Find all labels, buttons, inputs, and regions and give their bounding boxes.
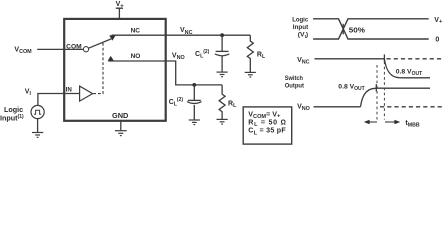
wire cap CL1 to ground [221,56,223,72]
NC pin label [131,27,141,34]
ground (CL2) [189,120,200,125]
svg-text:Input: Input [293,24,309,31]
Logic Input waveform labels [292,17,309,40]
driver buffer amp [80,86,93,101]
wire COM input [37,48,83,50]
V+ supply label [116,1,125,9]
resistor RL2 [219,85,225,119]
svg-text:GND: GND [112,111,128,120]
svg-text:VI: VI [25,88,32,97]
CL(2) label upper [195,49,210,59]
wire logic input [38,94,80,106]
VNC falling curve [384,59,430,78]
wire NO to bend [108,61,222,85]
VNC waveform label [297,57,310,66]
capacitor CL1 [216,50,229,52]
IN pin label [66,87,73,94]
IC box U1 [64,19,166,121]
svg-text:Output: Output [285,82,305,89]
svg-text:tMBB: tMBB [405,118,419,129]
svg-text:0.8 VOUT: 0.8 VOUT [338,84,364,93]
wire GND pin [120,121,122,130]
RL label upper [257,51,266,60]
VNO waveform label [297,103,310,112]
0 level label [435,36,439,43]
VCOM label [14,46,32,55]
wire cap CL2 lead [193,85,195,100]
wire V+ pin [118,8,120,19]
wire cap CL2 to ground [193,105,195,120]
CL(2) label lower [169,97,184,107]
NC contact triangle [109,35,115,40]
NO pin label [131,53,141,60]
50% tick [342,24,344,35]
svg-text:VNO: VNO [297,103,310,112]
tMBB right arrow [385,120,400,125]
svg-text:50%: 50% [349,25,366,34]
switch lever [89,39,112,48]
logic waveform high/low with crossing [313,19,429,39]
svg-text:NO: NO [131,53,141,60]
svg-text:(VI): (VI) [298,31,308,40]
wire NC to RC load [112,34,251,36]
note box [243,107,292,144]
svg-text:NC: NC [131,27,141,34]
ground (RL1) [245,72,256,77]
svg-text:VNO: VNO [172,52,185,61]
GND pin label [112,111,128,120]
note text RL = 50 ohm [248,119,286,129]
svg-text:COM: COM [66,43,82,50]
VNC high line [315,58,385,60]
COM pin label [66,43,82,50]
junction NC node [220,33,224,37]
0.8 VOUT label (VNO) [338,84,364,93]
svg-text:Logic: Logic [292,17,308,24]
dashed marker VNC event [383,62,385,120]
svg-text:Input(1): Input(1) [0,113,24,122]
50% label [349,25,366,34]
svg-text:0: 0 [435,36,439,43]
0.8 VOUT label (VNC) [396,69,422,78]
svg-text:RL: RL [257,51,266,60]
switch pole circle [83,47,88,52]
V+ level label [434,17,443,25]
pulse source V1 [31,105,44,118]
VNC dashed high continuation [387,58,444,60]
VNO low line [314,106,361,108]
wire cap CL1 lead [221,35,223,51]
dashed marker VNO event [376,65,378,120]
svg-text:VCOM: VCOM [14,46,32,55]
svg-text:CL(2): CL(2) [195,49,210,59]
VNC 0.8 tick [383,54,385,61]
capacitor CL2 [188,99,201,101]
VI label [25,88,32,97]
VNO rising curve [361,88,431,107]
NO contact triangle [108,56,114,61]
pulse glyph [34,110,41,114]
svg-text:Switch: Switch [285,75,303,82]
svg-text:VNC: VNC [297,57,310,66]
tMBB label [405,118,419,129]
ground (RL2) [217,119,228,124]
tMBB left arrow [364,120,377,125]
dashed actuator link [93,42,103,93]
svg-text:IN: IN [66,87,73,94]
node VNC label [180,27,193,36]
ground (IC) [115,131,127,136]
VNO 0.8 tick [375,84,377,91]
note text CL = 35 pF [248,127,286,137]
svg-text:RL: RL [228,101,237,110]
svg-text:0.8 VOUT: 0.8 VOUT [396,69,422,78]
svg-text:CL(2): CL(2) [169,97,184,107]
RL label lower [228,101,237,110]
resistor RL1 [247,35,253,72]
V+ rail bar [116,7,123,9]
wire source to ground [37,119,39,133]
ground (source) [32,133,43,138]
ground (CL1) [217,72,228,77]
note text VCOM = V+ [248,110,281,120]
Logic Input(1) label [0,105,24,122]
Switch Output label [285,75,305,89]
svg-text:VNC: VNC [180,27,193,36]
VNO dashed low continuation [380,106,443,108]
svg-text:V+: V+ [434,17,443,25]
node VNO label [172,52,185,61]
junction NO node [192,83,196,87]
